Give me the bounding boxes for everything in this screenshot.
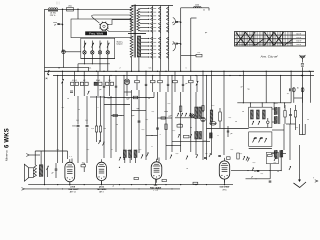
voltage selector table — [235, 32, 306, 47]
wire long vertical e — [103, 96, 105, 158]
svg-text:0,2: 0,2 — [87, 149, 90, 151]
switch contact voltage selector lower — [151, 52, 153, 55]
svg-text:50: 50 — [242, 111, 244, 113]
switch contact voltage selector — [167, 15, 169, 18]
switch contact voltage selector lower — [167, 37, 169, 40]
wire tap upper — [140, 23, 150, 24]
svg-text:6: 6 — [152, 146, 153, 148]
svg-text:Cµ: Cµ — [247, 89, 249, 91]
svg-text:1,0: 1,0 — [205, 153, 208, 155]
tube V3 extra top pin — [158, 158, 160, 162]
trimmer C13 — [196, 76, 198, 93]
svg-text:25: 25 — [307, 119, 309, 121]
svg-text:0,1: 0,1 — [229, 117, 232, 119]
mid link wire y97 — [104, 92, 154, 99]
coupling capacitor C14 — [72, 96, 79, 163]
switch contact voltage selector — [151, 11, 153, 14]
socket ellipse mid — [210, 122, 216, 126]
IF cap small 1 — [267, 118, 270, 128]
diode arrows lower — [178, 134, 192, 138]
choke L1 mains filter — [48, 8, 58, 11]
switch contact voltage selector — [151, 7, 153, 10]
wire selector bottom drops — [153, 59, 169, 71]
wire detector row line — [175, 117, 195, 119]
svg-text:0,3: 0,3 — [91, 128, 94, 130]
node antenna bus — [302, 75, 304, 77]
wire link h6 — [272, 129, 284, 131]
switch contact voltage selector — [159, 22, 161, 25]
terminal right edge — [313, 178, 318, 183]
label Skala — [117, 42, 124, 46]
wire tap upper — [140, 30, 150, 31]
wire tap lower — [141, 38, 150, 39]
mid cap on vertical l — [156, 128, 159, 129]
svg-text:0,1: 0,1 — [198, 52, 201, 54]
switch contact S1c — [99, 41, 102, 51]
svg-text:AH 3: AH 3 — [99, 191, 103, 194]
lamp LP1 — [83, 51, 86, 59]
svg-text:1250: 1250 — [195, 4, 199, 6]
mid link wire 1 — [90, 97, 105, 98]
svg-text:470: 470 — [275, 103, 278, 105]
wire link h4 — [286, 124, 296, 130]
svg-text:+4: +4 — [186, 168, 188, 170]
label text V3 — [150, 185, 161, 192]
brace lower — [173, 42, 176, 52]
wire vertical 243 — [242, 71, 244, 103]
svg-text:20: 20 — [127, 150, 129, 152]
wire long vertical l — [157, 92, 159, 160]
svg-text:0,1: 0,1 — [146, 119, 149, 121]
svg-text:0,1: 0,1 — [296, 127, 299, 129]
wire selector top bus — [132, 5, 174, 7]
resistor R17 tall — [219, 108, 222, 128]
wire mains top horizontal — [45, 8, 132, 10]
wire tap lower — [141, 45, 150, 46]
bus junction dots — [57, 71, 310, 76]
svg-text:8: 8 — [218, 135, 219, 137]
svg-text:+4: +4 — [112, 186, 114, 188]
resistor R15 — [177, 123, 183, 127]
svg-text:Minerva: Minerva — [5, 150, 9, 161]
switch S2 scale lamp — [62, 50, 66, 54]
cathode arrows bottom — [170, 155, 248, 161]
svg-text:Freq.-Wahl: Freq.-Wahl — [89, 31, 103, 35]
svg-text:0,2: 0,2 — [83, 80, 85, 82]
svg-text:50 µF: 50 µF — [96, 80, 100, 82]
svg-text:0,5: 0,5 — [204, 140, 207, 142]
dial lamps box — [81, 38, 115, 58]
misc value labels — [57, 67, 309, 187]
resistor pair R4a R4b — [70, 71, 79, 96]
wire ot to tube — [35, 151, 67, 165]
svg-text:0,5: 0,5 — [108, 98, 111, 100]
wire tube V2 cathode — [101, 181, 103, 185]
svg-text:0,5: 0,5 — [212, 105, 215, 107]
svg-text:0,1: 0,1 — [240, 153, 243, 155]
wire long vertical g — [115, 96, 117, 152]
tube V6 tuning indicator top view — [99, 22, 108, 31]
svg-text:4: 4 — [112, 149, 113, 151]
svg-text:0,5: 0,5 — [139, 149, 142, 151]
wire tube V1 cathode — [69, 182, 71, 185]
wire lamps to collector line — [78, 59, 110, 72]
wire long vertical b — [62, 96, 64, 163]
wire vertical 284 lower — [283, 124, 285, 150]
IF can box 1 — [249, 107, 272, 127]
dial assembly box — [71, 19, 131, 38]
lower IF trimmers — [253, 138, 267, 143]
wire tap upper — [140, 27, 150, 28]
switch contact voltage selector lower — [167, 45, 169, 48]
svg-text:lampen: lampen — [117, 44, 123, 46]
antenna sockets — [292, 88, 304, 92]
pickup terminal — [26, 154, 40, 157]
svg-text:0,2: 0,2 — [173, 130, 176, 132]
wire tap lower — [141, 49, 150, 50]
svg-text:1: 1 — [186, 67, 187, 69]
resistor pair R6a R6b hatched — [94, 71, 102, 96]
node B — [77, 9, 79, 11]
resistor R10 — [158, 71, 163, 92]
capacitor C12 — [182, 76, 189, 93]
wire vertical 280 — [280, 76, 282, 103]
switch contact voltage selector lower — [151, 48, 153, 51]
switch antenna-earth — [45, 70, 49, 80]
svg-text:0,1: 0,1 — [120, 115, 123, 117]
wire long vertical n — [171, 76, 173, 153]
svg-text:(2013: (2013 — [99, 186, 105, 188]
right cluster cap Cb — [289, 108, 292, 124]
wire right vertical r2 — [206, 76, 208, 161]
wire down from node B — [77, 9, 79, 19]
svg-text:50: 50 — [235, 121, 237, 123]
wire left edge vertical — [44, 9, 46, 184]
transformer T1 primary winding — [130, 6, 133, 32]
wire down from node A — [62, 9, 64, 52]
svg-text:0,5: 0,5 — [179, 123, 182, 125]
tube V1 output AL4 — [65, 159, 75, 185]
coil L3 vertical hatch — [210, 110, 213, 122]
svg-text:110 V: 110 V — [296, 33, 302, 35]
switch contact S1d — [107, 41, 110, 51]
tube V1 extra top pin — [69, 156, 72, 162]
svg-text:0,1 0,1: 0,1 0,1 — [72, 80, 77, 82]
IF trimmer 1 — [252, 121, 260, 125]
svg-text:50: 50 — [116, 124, 118, 126]
wire long vertical j — [138, 90, 140, 153]
resistor R14 vertical mid — [99, 96, 101, 142]
resistor bottom Ra — [81, 162, 85, 172]
svg-text:TAB GAM: TAB GAM — [68, 188, 78, 191]
switch contact voltage selector lower — [167, 48, 169, 51]
mid link wire 2 — [104, 104, 130, 105]
electrolytic C16 — [201, 106, 205, 122]
svg-text:220 V: 220 V — [296, 44, 302, 46]
electrolytic C9 — [124, 71, 129, 96]
wire HT vertical 1 — [180, 8, 182, 72]
IF coil stack lower — [195, 132, 202, 140]
switch contact voltage selector — [151, 26, 153, 29]
label 47 Cbu — [241, 87, 250, 91]
svg-text:125 V: 125 V — [296, 37, 302, 39]
ground symbol main — [294, 174, 307, 188]
mid link wire 6 — [158, 117, 173, 119]
wire main bus lower — [53, 75, 314, 77]
wire long vertical k — [145, 96, 147, 160]
wire bottom bus 2 — [25, 188, 181, 190]
coupling capacitor C15 — [86, 96, 89, 163]
svg-text:50: 50 — [190, 127, 192, 129]
terminal bottom left — [22, 188, 25, 191]
wire tap upper — [140, 15, 150, 16]
wire tap lower — [141, 53, 150, 54]
switch contact voltage selector lower — [151, 45, 153, 48]
svg-text:1 1: 1 1 — [69, 156, 72, 158]
bottom caps right — [204, 156, 271, 183]
wire tap upper — [140, 8, 150, 9]
wire link h1 — [237, 102, 291, 103]
capacitor C1 mains — [53, 22, 63, 26]
wire antenna down — [301, 67, 303, 134]
svg-text:3: 3 — [160, 134, 161, 136]
fuse Si1 — [67, 6, 74, 11]
wire vertical 291 — [290, 71, 292, 103]
svg-text:0,1: 0,1 — [62, 107, 65, 109]
svg-text:0,1: 0,1 — [57, 149, 60, 151]
mid link wire 4 — [132, 108, 147, 111]
switch contact voltage selector — [167, 7, 169, 10]
svg-text:50: 50 — [148, 98, 150, 100]
svg-text:30: 30 — [297, 88, 299, 90]
bottom right component cluster — [237, 152, 279, 178]
transformer T1 primary lower winding — [130, 36, 133, 57]
wire bottom link 2 — [246, 176, 271, 179]
svg-text:2: 2 — [98, 107, 99, 109]
lower IF box — [249, 132, 272, 147]
mid link wire 7 — [166, 145, 181, 146]
svg-text:5000: 5000 — [72, 126, 76, 128]
wire bottom bus 1 — [28, 184, 233, 186]
svg-text:47: 47 — [241, 87, 243, 89]
wire dial lower — [107, 30, 132, 32]
bottom small resistors — [134, 177, 198, 184]
label L1 value — [50, 12, 57, 16]
switch contact voltage selector — [151, 18, 153, 21]
wire transformer bottom drop 2 — [138, 57, 140, 71]
svg-text:0,1: 0,1 — [231, 149, 234, 151]
output transformer resistor — [34, 165, 37, 177]
svg-text:150 V: 150 V — [296, 41, 302, 43]
grid arrows mid — [99, 140, 105, 146]
svg-text:0,5: 0,5 — [253, 162, 256, 164]
svg-text:0,1: 0,1 — [85, 120, 88, 122]
switch contact voltage selector — [167, 22, 169, 25]
switch contact voltage selector — [151, 15, 153, 18]
transformer T1 heater winding hatched — [137, 36, 140, 57]
switch contact voltage selector lower — [159, 48, 161, 51]
wire right vertical r3 — [211, 71, 213, 155]
wire tube V4 cathode — [224, 179, 226, 185]
mid link wire y92 — [124, 91, 132, 93]
transformer T1 divider bar — [128, 33, 146, 35]
switch contact voltage selector — [167, 26, 169, 29]
svg-text:0,3: 0,3 — [168, 103, 171, 105]
wires to IF2 — [271, 153, 286, 155]
antenna — [299, 55, 305, 63]
switch contact voltage selector lower — [167, 52, 169, 55]
wire ground drop — [299, 145, 301, 174]
switch contact voltage selector lower — [151, 56, 153, 59]
output transformer winding — [39, 165, 43, 177]
svg-text:0,1: 0,1 — [261, 173, 264, 175]
wire S2 to lamps box — [65, 51, 81, 53]
tube V3 ACH1 — [151, 159, 162, 183]
svg-text:2: 2 — [120, 67, 121, 69]
wire socket stubs — [294, 92, 303, 103]
lamp LP4 — [106, 51, 109, 59]
wire selector mid stubs — [153, 8, 156, 57]
svg-text:Ans. Cüu wf: Ans. Cüu wf — [260, 55, 279, 59]
svg-text:20: 20 — [67, 98, 69, 100]
wire dial top loop — [92, 15, 132, 23]
wire main bus upper — [45, 70, 315, 72]
svg-text:0,1: 0,1 — [274, 162, 277, 164]
coil small stack mid — [210, 133, 213, 138]
capacitor C8 — [115, 76, 117, 97]
svg-text:0,1: 0,1 — [89, 67, 92, 69]
svg-text:(FK): (FK) — [223, 189, 227, 191]
svg-text:8µF: 8µF — [137, 108, 140, 110]
wire long vertical h — [123, 76, 125, 161]
resistor R12 — [189, 76, 194, 93]
wires IF transformer taps — [272, 109, 274, 122]
switch contact voltage selector lower — [159, 56, 161, 59]
resistor R16 — [184, 135, 190, 138]
wire long vertical p — [190, 92, 192, 152]
wire HT vertical 2 — [190, 18, 192, 71]
lamp LP2 — [91, 51, 94, 59]
wire link h2 — [207, 128, 249, 130]
wire HT link horizontal — [181, 55, 196, 57]
wire IF box top stubs — [250, 103, 284, 108]
svg-text:25: 25 — [78, 109, 80, 111]
svg-text:0,1: 0,1 — [152, 111, 155, 113]
switch contact voltage selector — [151, 22, 153, 25]
svg-text:µF: µF — [251, 176, 253, 178]
label box Frequenzwahl — [85, 31, 107, 35]
switch contact voltage selector — [159, 11, 161, 14]
mid link wire 3 — [111, 114, 124, 116]
wire bottom right verticals — [281, 150, 282, 171]
svg-text:6 WKS: 6 WKS — [4, 128, 10, 148]
speaker LS — [24, 164, 33, 181]
wire vertical 266 — [265, 71, 267, 103]
antenna coil — [301, 63, 304, 66]
switch contact S1a — [84, 41, 87, 51]
switch contact voltage selector — [167, 11, 169, 14]
resistor R2 on HT — [194, 4, 210, 11]
svg-text:0,5: 0,5 — [149, 67, 152, 69]
svg-text:TAD IADM: TAD IADM — [97, 188, 107, 191]
switch contact voltage selector lower — [159, 45, 161, 48]
switch contact voltage selector — [151, 30, 153, 33]
capacitor C11 — [167, 76, 169, 93]
mid cap on vertical j — [138, 121, 141, 122]
capacitor C18 — [287, 88, 299, 96]
wire lamps common bottom — [81, 58, 115, 60]
node mains junction A — [62, 9, 64, 11]
switch contact voltage selector — [159, 7, 161, 10]
switch contact voltage selector lower — [159, 52, 161, 55]
lower IF caps — [254, 138, 262, 139]
bottom junction dots — [44, 170, 271, 189]
wire long vertical q — [195, 92, 197, 155]
wire selector column — [168, 6, 170, 60]
mid resistor on vertical m — [165, 124, 167, 130]
wire link y141 — [172, 141, 210, 142]
IF transformer core coil — [274, 107, 280, 124]
switch contact voltage selector lower — [151, 41, 153, 44]
brace upper — [173, 18, 176, 26]
wire right vertical r4 — [223, 71, 225, 155]
wire long vertical f — [110, 96, 112, 158]
switch contact voltage selector — [167, 30, 169, 33]
switch contact voltage selector — [159, 15, 161, 18]
resistor pair R5a R5b — [80, 71, 89, 96]
switch contact voltage selector — [159, 18, 161, 21]
wire vertical 290 lower — [289, 124, 291, 160]
wire long vertical a — [57, 76, 59, 164]
IF coil 1b — [257, 110, 260, 119]
wire dial to transformer — [108, 20, 132, 25]
switch contact voltage selector lower — [167, 41, 169, 44]
capacitor C19 speaker — [51, 163, 57, 178]
wire link h5 — [294, 97, 303, 99]
capacitor C4 on HT1 — [172, 21, 182, 24]
wire long vertical o — [180, 92, 182, 152]
mid link wire 5 — [146, 135, 158, 136]
oscillator coil pair — [123, 150, 137, 163]
switch contact voltage selector lower — [159, 37, 161, 40]
wire tap lower — [141, 56, 150, 57]
transformer T1 core — [134, 5, 135, 58]
wire link h3 — [249, 148, 272, 150]
switch contact voltage selector lower — [151, 37, 153, 40]
IF coil 1a — [251, 110, 254, 119]
detector diode arrows row — [177, 113, 191, 117]
switch contact S1b — [92, 41, 95, 51]
resistor pair R7a R7b — [106, 76, 114, 97]
wire transformer bottom drop 1 — [131, 57, 133, 71]
svg-text:III: III — [56, 1, 60, 6]
volume pot arrow — [289, 166, 291, 170]
wire speaker top — [33, 169, 35, 171]
wire tube V3 cathode — [155, 179, 157, 185]
resistor R3 — [196, 52, 202, 57]
svg-text:50: 50 — [277, 171, 279, 173]
wire bottom right link — [231, 170, 281, 172]
svg-text:0,5: 0,5 — [108, 80, 110, 82]
label text V4 — [220, 187, 230, 192]
IF coil 1c — [263, 110, 266, 119]
wire tap upper — [140, 12, 150, 13]
wire tap lower — [141, 42, 150, 43]
switch contact voltage selector — [159, 30, 161, 33]
right cluster resistor Rb — [294, 105, 296, 124]
lamp indicator right — [190, 114, 194, 118]
wire selector column — [160, 6, 162, 60]
